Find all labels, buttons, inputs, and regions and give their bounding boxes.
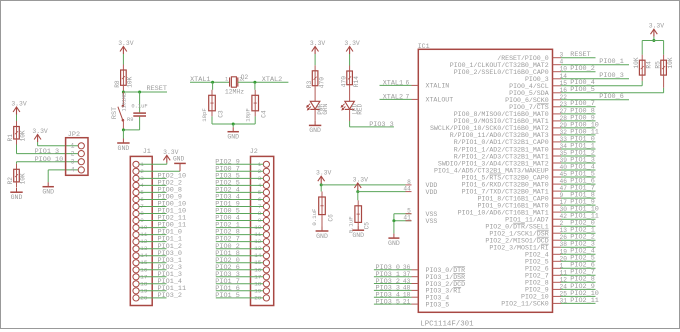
svg-text:470: 470 [318, 77, 325, 88]
IC1 pin 7 XTALOUT [380, 93, 454, 103]
wire reset node to capacitor [139, 92, 141, 112]
supply 3.3V (J1 pin1) [163, 149, 179, 165]
J1 pin 17 (PIO1_3) [133, 271, 182, 280]
op IC1 LPC1114F/301 outline [418, 43, 553, 329]
svg-text:LPC1114F/301: LPC1114F/301 [420, 321, 474, 329]
svg-text:R8: R8 [114, 80, 121, 88]
wire R14 to LED [349, 85, 351, 102]
J2 pin 6 (PIO3_4) [215, 194, 269, 203]
J2 pin 8 (PIO0_5) [215, 208, 269, 217]
J2 pin 20 (PIO1_5) [215, 292, 269, 301]
svg-text:XTALOUT: XTALOUT [426, 97, 454, 104]
svg-text:XTAL2: XTAL2 [262, 76, 282, 84]
IC1 pin 2 (PIO2_0) [485, 220, 595, 231]
junction at button bottom [122, 128, 125, 131]
resistor R1 [7, 127, 27, 142]
J1 pin 6 (PIO0_9) [133, 194, 182, 203]
svg-text:RESET: RESET [570, 51, 590, 59]
IC1 pin 10 (PIO0_2) [454, 65, 596, 76]
J1 pin 2 (GND) [133, 168, 180, 175]
svg-text:C5: C5 [364, 222, 371, 230]
svg-text:PIO3_5: PIO3_5 [376, 298, 400, 306]
wire capacitor to ground rail [139, 117, 141, 130]
wire XTAL1 [190, 81, 229, 83]
J1 pin 3 (PIO2_10) [133, 173, 186, 182]
svg-text:PIO2_9: PIO2_9 [525, 287, 549, 294]
svg-text:PIO1_5/RTS/CT32B0_CAP0: PIO1_5/RTS/CT32B0_CAP0 [462, 174, 549, 181]
svg-text:C4: C4 [261, 110, 268, 118]
ground (C6) [316, 227, 329, 240]
IC1 pin 8 VDD [407, 179, 437, 189]
svg-text:GND: GND [173, 156, 184, 163]
capacitor C4 18pF [244, 95, 267, 122]
IC1 pin 45 (PIO1_5) [462, 170, 596, 181]
IC1 pin 30 (PIO1_10) [458, 206, 599, 217]
svg-text:R9: R9 [127, 117, 133, 123]
IC1 pin 21 (PIO3_5) [374, 298, 449, 308]
svg-text:VDD: VDD [426, 189, 438, 196]
resistor R4 10K [633, 57, 653, 75]
svg-text:PIO2_10: PIO2_10 [521, 294, 549, 301]
resistor R8 [114, 70, 134, 88]
J2 pin 4 (PIO2_5) [215, 180, 269, 189]
svg-text:10K: 10K [20, 173, 27, 184]
svg-text:R/PIO1_2/AD3/CT32B1_MAT1: R/PIO1_2/AD3/CT32B1_MAT1 [454, 153, 549, 160]
wire pull-up rail [642, 40, 663, 42]
svg-text:PIO0_2/SSEL0/CT16B0_CAP0: PIO0_2/SSEL0/CT16B0_CAP0 [454, 69, 549, 76]
J2 pin 10 (PIO2_1) [215, 222, 269, 231]
J1 pin 1 (3.3V) [133, 161, 167, 168]
svg-text:PIO2_3/MOSI1/RI: PIO2_3/MOSI1/RI [489, 245, 548, 252]
J2 pin 14 (PIO1_8) [215, 250, 269, 259]
wire R5 to PIO0_5 [663, 75, 665, 88]
svg-text:R/PIO0_11/AD0/CT32B0_MAT3: R/PIO0_11/AD0/CT32B0_MAT3 [450, 132, 549, 139]
svg-text:C6: C6 [328, 214, 335, 222]
svg-text:PIO0_4/SCL: PIO0_4/SCL [509, 83, 549, 90]
IC1 pin 28 (PIO0_9) [454, 114, 596, 125]
J1 pin 12 (PIO1_1) [133, 236, 182, 245]
J1 pin 10 (PIO0_11) [133, 222, 186, 231]
svg-text:PIO0_1: PIO0_1 [599, 58, 623, 66]
wire VSS pins [394, 213, 412, 215]
J1 pin 20 (PIO3_2) [133, 292, 182, 301]
LED PWR GRN [307, 101, 329, 115]
svg-text:GND: GND [118, 145, 130, 152]
J2 pin 11 (PIO2_8) [215, 229, 269, 238]
svg-text:1101NE: 1101NE [121, 93, 127, 112]
svg-text:3.3V: 3.3V [344, 40, 360, 47]
svg-text:R4: R4 [645, 61, 652, 69]
svg-text:PIO1_7/TXD/CT32B0_MAT1: PIO1_7/TXD/CT32B0_MAT1 [462, 188, 549, 195]
IC1 pin 27 (PIO0_8) [454, 107, 596, 118]
junction ground rail [232, 123, 235, 126]
svg-text:XTAL1: XTAL1 [190, 76, 210, 84]
junction VSS [392, 219, 395, 222]
IC1 pin 15 (PIO0_4) [509, 79, 642, 90]
svg-text:PIO0_7/CTS: PIO0_7/CTS [509, 104, 549, 111]
supply 3.3V (JP2 pin1) [32, 128, 48, 142]
svg-text:PIO3_2: PIO3_2 [158, 292, 182, 300]
svg-text:18pF: 18pF [201, 108, 208, 122]
svg-text:PIO0_5/SDA: PIO0_5/SDA [509, 90, 549, 97]
ground (crystal) [227, 124, 239, 141]
resistor R14 470 [340, 71, 360, 87]
crystal Q2 12MHz [225, 74, 249, 95]
svg-text:18pF: 18pF [244, 108, 251, 122]
svg-text:3.3V: 3.3V [649, 23, 665, 30]
svg-text:VSS: VSS [426, 211, 438, 218]
J2 pin 2 (PIO0_7) [215, 165, 269, 174]
J1 pin 11 (PIO1_0) [133, 229, 182, 238]
IC1 pin 37 (PIO3_1) [374, 271, 465, 281]
J1 pin 5 (PIO0_8) [133, 187, 182, 196]
svg-text:R1: R1 [7, 134, 14, 142]
svg-text:PIO1_4/AD5/CT32B1_MAT3/WAKEUP: PIO1_4/AD5/CT32B1_MAT3/WAKEUP [434, 167, 549, 174]
svg-text:PIO2_7: PIO2_7 [525, 273, 549, 280]
ground (reset) [117, 130, 129, 152]
svg-text:GND: GND [42, 189, 54, 196]
svg-text:PIO0_6: PIO0_6 [599, 93, 623, 101]
wire XTAL1 down to C3 [212, 82, 214, 90]
IC1 pin 48 (PIO3_3) [374, 285, 461, 295]
LED LED RED [341, 101, 363, 115]
wire C6 to ground [321, 215, 323, 227]
IC1 pin 33 (PIO1_0) [454, 135, 596, 146]
wire C4 to ground rail [254, 111, 256, 117]
wire XTAL2 down to C4 [254, 82, 256, 90]
IC1 pin 42 (PIO1_11) [505, 213, 599, 224]
IC1 pin 12 (PIO2_8) [525, 276, 596, 287]
connector JP2 [66, 131, 88, 175]
svg-text:10K: 10K [633, 57, 640, 68]
wire PIO0_10 net [16, 162, 18, 164]
J2 pin 1 (PIO2_9) [215, 158, 269, 167]
wire R8 to reset node [122, 85, 124, 92]
IC1 pin 35 (PIO1_2) [454, 149, 596, 160]
svg-text:2: 2 [71, 150, 75, 157]
J1 pin 15 (PIO3_1) [133, 257, 182, 266]
IC1 pin 9 (PIO1_8) [477, 192, 595, 203]
svg-text:SWDIO/PIO1_3/AD4/CT32B1_MAT2: SWDIO/PIO1_3/AD4/CT32B1_MAT2 [438, 160, 549, 167]
wire VDD pin 44 [357, 191, 359, 192]
svg-text:R2: R2 [7, 177, 14, 185]
svg-text:PIO0_2: PIO0_2 [570, 65, 594, 73]
wire R3 to LED [314, 86, 316, 102]
J1 pin 13 (PIO1_2) [133, 243, 182, 252]
svg-text:PIO2_4: PIO2_4 [525, 252, 549, 259]
capacitor C3 18pF [201, 95, 224, 122]
junction XTAL1/C3 [211, 81, 214, 84]
J1 pin 9 (PIO2_11) [133, 215, 186, 224]
J2 pin 15 (PIO2_0) [215, 257, 269, 266]
node RESET junction [122, 91, 125, 94]
svg-text:XTAL2: XTAL2 [383, 93, 403, 101]
wire C5 to ground [357, 222, 359, 225]
junction pull-up rail [653, 37, 655, 41]
IC1 pin 5 VSS [406, 208, 438, 218]
svg-text:0.1uF: 0.1uF [311, 208, 318, 226]
wire LED to PIO3_3 net [349, 109, 351, 121]
svg-text:41: 41 [403, 215, 411, 222]
IC1 pin 13 (PIO2_1) [489, 227, 595, 238]
IC1 pin 44 VDD [403, 186, 437, 196]
IC1 pin 26 (PIO2_2) [485, 234, 595, 245]
svg-text:VSS: VSS [426, 218, 438, 225]
supply 3.3V (I2C pull-ups) [649, 23, 665, 37]
J1 pin 18 (PIO1_4) [133, 278, 182, 287]
svg-text:1: 1 [71, 143, 75, 150]
svg-text:R14: R14 [353, 76, 360, 87]
IC1 pin 38 (PIO2_3) [489, 241, 595, 252]
IC1 pin 6 XTALIN [380, 79, 450, 89]
IC1 pin 32 (PIO0_11) [450, 128, 599, 139]
wire R2 to ground [16, 182, 18, 187]
svg-text:RST: RST [111, 107, 119, 119]
IC1 pin 39 (PIO1_3) [438, 156, 596, 167]
svg-text:XTALIN: XTALIN [426, 83, 450, 90]
IC1 pin 20 (PIO2_5) [525, 255, 596, 266]
supply 3.3V (reset pull-up) [118, 40, 134, 70]
svg-text:PIO2_11/SCK0: PIO2_11/SCK0 [501, 301, 549, 308]
svg-text:PIO1_8/CT16B1_CAP0: PIO1_8/CT16B1_CAP0 [477, 195, 548, 202]
wire LED to ground [314, 109, 316, 121]
junction to C9 branch [138, 91, 141, 94]
svg-text:6: 6 [405, 79, 409, 86]
J2 pin 3 (PIO3_5) [215, 173, 269, 182]
IC1 pin 23 (PIO0_7) [509, 100, 595, 111]
ground (power LED) [309, 121, 321, 134]
svg-text:PIO2_2/MISO1/DCD: PIO2_2/MISO1/DCD [485, 238, 548, 245]
svg-text:3.3V: 3.3V [310, 40, 326, 47]
wire 3.3V to C5 [357, 192, 359, 201]
svg-text:PIO2_8: PIO2_8 [525, 280, 549, 287]
J2 pin 16 (PIO2_6) [215, 264, 269, 273]
wire 3.3V to C6 [320, 185, 322, 192]
supply 3.3V (user LED) [344, 40, 360, 71]
J2 pin 17 (PIO3_3) [215, 271, 269, 280]
svg-text:XTAL1: XTAL1 [383, 79, 403, 87]
svg-text:PIO1_10/AD6/CT16B1_MAT1: PIO1_10/AD6/CT16B1_MAT1 [458, 209, 549, 216]
svg-text:PIO0_6/SCK0: PIO0_6/SCK0 [505, 97, 549, 104]
svg-text:PIO2_0/DTR/SSEL1: PIO2_0/DTR/SSEL1 [485, 224, 548, 231]
svg-text:PIO1_3: PIO1_3 [35, 148, 59, 156]
svg-text:GND: GND [11, 194, 23, 201]
J1 pin 7 (PIO0_10) [133, 201, 186, 210]
svg-text:Q2: Q2 [241, 74, 249, 81]
connector J2 [250, 148, 274, 305]
J1 pin 19 (PIO1_11) [133, 285, 186, 294]
J1 pin 16 (PIO2_3) [133, 264, 182, 273]
svg-text:PIO0_1/CLKOUT/CT32B0_MAT2: PIO0_1/CLKOUT/CT32B0_MAT2 [450, 62, 549, 69]
svg-text:PIO0_8/MISO0/CT16B0_MAT0: PIO0_8/MISO0/CT16B0_MAT0 [454, 111, 549, 118]
svg-text:PIO2_11: PIO2_11 [570, 297, 599, 305]
svg-text:0.1uF: 0.1uF [131, 104, 147, 110]
J1 pin 14 (PIO3_0) [133, 250, 182, 259]
svg-text:GND: GND [227, 134, 239, 141]
IC1 pin 40 (PIO1_4) [434, 163, 596, 174]
svg-text:/RESET/PIO0_0: /RESET/PIO0_0 [497, 55, 548, 62]
svg-text:PIO0_3: PIO0_3 [525, 76, 549, 83]
ground (C5) [352, 226, 364, 239]
ground (J1 pin2, inverted) [173, 156, 186, 172]
wire ground rail under crystal [212, 123, 255, 125]
svg-text:PIO2_5: PIO2_5 [525, 259, 549, 266]
svg-text:PIO2_1/SCK1/DSR: PIO2_1/SCK1/DSR [489, 231, 548, 238]
junction VDD8 [320, 183, 323, 186]
junction XTAL2/C4 [253, 81, 256, 84]
svg-text:RESET: RESET [147, 85, 167, 93]
svg-text:PIO0_5: PIO0_5 [570, 86, 594, 94]
svg-text:PIO3_3: PIO3_3 [369, 121, 393, 129]
J2 pin 9 (PIO0_4) [215, 215, 269, 224]
ground (VSS) [388, 221, 400, 247]
svg-text:PIO3_5: PIO3_5 [426, 301, 450, 308]
supply 3.3V (R1 top) [11, 101, 27, 127]
svg-text:5: 5 [407, 208, 411, 215]
IC1 pin 1 (PIO2_6) [525, 262, 596, 273]
IC1 pin 3 (RESET) [497, 51, 595, 62]
capacitor C9 0.1uF [131, 104, 147, 116]
svg-text:4: 4 [71, 167, 75, 174]
svg-text:R3: R3 [306, 80, 313, 88]
supply 3.3V (VDD pin 8) [316, 170, 332, 184]
IC1 pin 25 (PIO2_10) [521, 290, 599, 301]
svg-text:10K: 10K [127, 76, 134, 87]
svg-text:GND: GND [316, 233, 328, 240]
supply 3.3V (VDD pin 44) [353, 177, 369, 191]
pushbutton RST 1101NE [111, 92, 134, 130]
svg-text:GND: GND [388, 240, 400, 247]
svg-text:J2: J2 [250, 148, 258, 156]
wire VDD pin 8 [320, 184, 322, 185]
svg-text:RED: RED [357, 103, 364, 114]
svg-text:PIO1_9/CT16B1_MAT0: PIO1_9/CT16B1_MAT0 [477, 202, 548, 209]
ground (JP2 pin4) [42, 182, 54, 195]
svg-text:R5: R5 [654, 61, 661, 69]
IC1 pin 46 (PIO1_6) [462, 178, 596, 189]
J1 pin 4 (PIO2_2) [133, 180, 182, 189]
wire XTAL2 [238, 81, 289, 83]
svg-text:3.3V: 3.3V [32, 128, 48, 135]
resistor R2 [7, 169, 27, 184]
wire RESET stub [123, 91, 167, 93]
svg-text:21: 21 [403, 298, 411, 305]
ground (below R2) [10, 188, 22, 201]
svg-text:R/PIO1_1/AD2/CT32B1_MAT0: R/PIO1_1/AD2/CT32B1_MAT0 [454, 146, 549, 153]
supply 3.3V (power LED) [310, 40, 326, 71]
svg-text:PIO0_9/MOSI0/CT16B0_MAT1: PIO0_9/MOSI0/CT16B0_MAT1 [454, 118, 549, 125]
resistor R5 10K [654, 57, 674, 75]
svg-text:10K: 10K [667, 57, 674, 68]
resistor R3 470 [306, 71, 326, 88]
IC1 pin 17 (PIO1_9) [477, 199, 595, 210]
svg-text:12MHz: 12MHz [225, 88, 244, 95]
svg-text:470: 470 [340, 76, 347, 87]
svg-text:PIO1_11/AD7: PIO1_11/AD7 [505, 217, 549, 224]
svg-text:GND: GND [352, 232, 364, 239]
IC1 pin 4 (PIO0_1) [450, 58, 629, 69]
IC1 pin 29 (PIO0_10) [430, 121, 599, 132]
svg-text:3.3V: 3.3V [118, 40, 134, 47]
J2 pin 18 (PIO1_7) [215, 278, 269, 287]
svg-text:GRN: GRN [322, 103, 329, 114]
svg-text:3.3V: 3.3V [11, 101, 27, 108]
wire C3 to ground rail [211, 111, 213, 117]
svg-text:PIO0_3: PIO0_3 [599, 72, 623, 80]
IC1 pin 19 (PIO2_4) [525, 248, 596, 259]
svg-text:3.3V: 3.3V [316, 170, 332, 177]
svg-text:3: 3 [71, 159, 75, 166]
svg-text:1: 1 [225, 76, 228, 82]
svg-text:7: 7 [405, 93, 409, 100]
svg-text:R/PIO1_0/AD1/CT32B1_CAP0: R/PIO1_0/AD1/CT32B1_CAP0 [454, 139, 549, 146]
svg-text:PIO1_6/RXD/CT32B0_MAT0: PIO1_6/RXD/CT32B0_MAT0 [462, 181, 549, 188]
svg-text:SWCLK/PIO0_10/SCK0/CT16B0_MAT2: SWCLK/PIO0_10/SCK0/CT16B0_MAT2 [430, 125, 549, 132]
svg-text:44: 44 [403, 186, 411, 193]
J2 pin 7 (PIO1_9) [215, 201, 269, 210]
connector J1 [130, 148, 152, 305]
IC1 pin 41 VSS [403, 215, 437, 225]
svg-text:PIO0_10: PIO0_10 [35, 156, 64, 164]
IC1 pin 24 (PIO2_9) [525, 283, 596, 294]
IC1 pin 36 (PIO3_0) [374, 264, 465, 274]
IC1 pin 22 (PIO0_6) [505, 93, 629, 104]
IC1 pin 14 (PIO0_3) [525, 72, 629, 83]
svg-text:3.3V: 3.3V [353, 177, 369, 184]
svg-text:J1: J1 [143, 148, 151, 156]
J1 pin 8 (PIO1_10) [133, 208, 186, 217]
wire R4 to PIO0_4 [641, 75, 643, 81]
capacitor C6 0.1uF [311, 197, 334, 226]
svg-text:PIO1_5: PIO1_5 [215, 292, 239, 300]
IC1 pin 18 (PIO3_4) [374, 292, 449, 302]
IC1 pin 34 (PIO1_1) [454, 142, 596, 153]
IC1 pin 16 (PIO0_5) [509, 86, 663, 97]
J2 pin 19 (PIO1_6) [215, 285, 269, 294]
IC1 pin 43 (PIO3_2) [374, 278, 465, 288]
J2 pin 12 (PIO2_7) [215, 236, 269, 245]
svg-text:PIO2_6: PIO2_6 [525, 266, 549, 273]
wire R1 to PIO1_3 net [16, 139, 18, 145]
J2 pin 5 (PIO2_4) [215, 187, 269, 196]
capacitor C5 0.1uF [347, 206, 370, 234]
wire 3.3V to JP2 pin1 [37, 142, 39, 146]
wire JP2 pin4 to ground [48, 169, 78, 171]
svg-text:GND: GND [309, 127, 321, 134]
J2 pin 13 (PIO0_2) [215, 243, 269, 252]
svg-text:10K: 10K [20, 130, 27, 141]
svg-text:C3: C3 [218, 110, 225, 118]
IC1 pin 47 (PIO1_7) [462, 185, 596, 196]
junction VDD44 [356, 190, 359, 193]
IC1 pin 11 (PIO2_7) [525, 269, 596, 280]
IC1 pin 31 (PIO2_11) [501, 297, 599, 308]
